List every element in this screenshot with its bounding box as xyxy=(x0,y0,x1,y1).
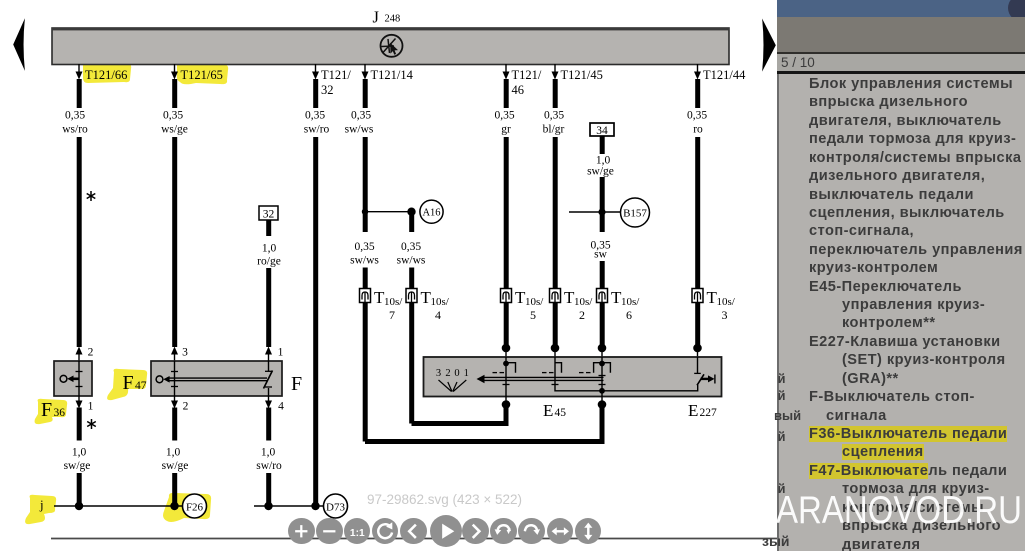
svg-text:7: 7 xyxy=(389,308,395,322)
wire E lower run xyxy=(363,268,368,290)
label E227 xyxy=(688,401,717,420)
wire E2 value 0,35 sw/ws xyxy=(397,241,426,267)
svg-text:0,35: 0,35 xyxy=(351,110,371,122)
wire E mid value 0,35 sw/ws xyxy=(350,241,379,267)
stray text fragment row3 xyxy=(774,408,801,423)
sidebar black line xyxy=(777,71,1025,73)
svg-text:sw/ge: sw/ge xyxy=(587,166,614,178)
svg-text:bl/gr: bl/gr xyxy=(543,124,565,136)
pin arrow up F36 pin 2 xyxy=(76,347,94,362)
wire I stub xyxy=(695,79,700,108)
svg-text:0,35: 0,35 xyxy=(163,110,183,122)
wire H mid run xyxy=(600,177,605,232)
svg-text:B157: B157 xyxy=(623,208,647,220)
junction node wire D bottom xyxy=(311,502,319,510)
highlight F36 label xyxy=(35,399,68,424)
stray text fragment row2 xyxy=(778,388,786,403)
wire F value 0,35 gr xyxy=(494,110,514,136)
asterisk below F36 xyxy=(87,419,96,429)
wire A lower stub xyxy=(77,408,82,441)
svg-text:1:1: 1:1 xyxy=(350,528,365,539)
highlight T121/66 xyxy=(83,63,131,83)
svg-text:T121/14: T121/14 xyxy=(371,68,414,82)
svg-text:32: 32 xyxy=(263,209,275,221)
wire A value 0,35 ws/ro xyxy=(62,110,88,136)
connector arrow T121/45 xyxy=(552,64,603,82)
switch E45 contact 1 xyxy=(493,357,516,397)
svg-text:4: 4 xyxy=(435,308,441,322)
wire C lower stub xyxy=(266,408,271,441)
svg-text:36: 36 xyxy=(54,407,66,419)
junction crossbar B157 xyxy=(569,208,620,215)
toolbar button zoom-in xyxy=(288,518,315,545)
mechanical link double line with left arrow xyxy=(477,375,604,383)
label E45 xyxy=(543,401,566,420)
toolbar button flip-h xyxy=(547,518,574,545)
svg-text:2: 2 xyxy=(88,347,94,359)
node circle F26 xyxy=(183,494,207,518)
wire B lower stub xyxy=(172,408,177,441)
highlight T121/65 xyxy=(177,63,228,84)
svg-text:1,0: 1,0 xyxy=(262,243,277,255)
svg-text:sw/ws: sw/ws xyxy=(350,255,379,267)
svg-text:2: 2 xyxy=(183,401,189,413)
svg-text:J: J xyxy=(373,8,380,27)
wire H stub below box 34 xyxy=(600,136,605,154)
svg-text:10s/: 10s/ xyxy=(574,296,593,308)
inner U route wire to E45 pin xyxy=(412,405,507,424)
svg-text:32: 32 xyxy=(321,83,334,97)
toolbar button rotate-left xyxy=(490,518,517,545)
svg-text:T121/65: T121/65 xyxy=(181,68,223,82)
sidebar pager band xyxy=(777,54,1025,72)
svg-text:3: 3 xyxy=(722,308,728,322)
svg-text:F26: F26 xyxy=(186,502,204,514)
svg-text:T121/44: T121/44 xyxy=(703,68,746,82)
sidebar panel xyxy=(777,0,1025,551)
svg-text:10s/: 10s/ xyxy=(525,296,544,308)
connector arrow T121/65 xyxy=(171,64,223,82)
svg-text:gr: gr xyxy=(501,124,511,136)
svg-text:5: 5 xyxy=(530,308,536,322)
bus bar J248 xyxy=(52,28,730,65)
sidebar blue header strip xyxy=(777,0,1025,17)
svg-text:3: 3 xyxy=(436,368,441,379)
connector symbol T10s/7 xyxy=(360,288,404,322)
wire G stub xyxy=(553,79,558,108)
label J 248 xyxy=(373,8,401,27)
stray text fragment row5 xyxy=(778,481,786,496)
wire H run to E45 xyxy=(600,303,605,346)
svg-text:ro: ro xyxy=(693,124,703,136)
wire E mid stub xyxy=(363,214,368,232)
svg-text:0,35: 0,35 xyxy=(401,241,421,253)
svg-text:4: 4 xyxy=(278,401,284,413)
connector symbol T10s/5 xyxy=(501,288,545,322)
highlight F47 label xyxy=(107,369,147,400)
junction node E2 xyxy=(407,208,415,216)
svg-text:1: 1 xyxy=(464,368,469,379)
svg-text:F: F xyxy=(291,373,302,395)
wire G run to E45 xyxy=(553,303,558,346)
pin arrow down F47 pin 2 xyxy=(171,396,189,413)
svg-text:sw: sw xyxy=(594,249,607,261)
outer U route wire to E45 pin xyxy=(365,405,602,442)
svg-text:10s/: 10s/ xyxy=(717,296,736,308)
label F47 xyxy=(123,372,147,394)
svg-text:0,35: 0,35 xyxy=(687,110,707,122)
wire C value 1,0 ro/ge xyxy=(257,243,281,268)
connector box 34 xyxy=(590,123,614,137)
toolbar button flip-v xyxy=(575,518,602,545)
asterisk mid wire A xyxy=(87,191,96,201)
svg-text:1,0: 1,0 xyxy=(166,447,181,459)
svg-text:T121/: T121/ xyxy=(512,68,542,82)
connector symbol T10s/6 xyxy=(597,288,641,322)
branch wire to A16 xyxy=(365,211,409,213)
svg-text:227: 227 xyxy=(700,407,718,419)
pin arrow up F pin 1 xyxy=(265,347,284,362)
bottom wire right segment xyxy=(254,505,324,507)
svg-text:T121/: T121/ xyxy=(321,68,351,82)
svg-text:10s/: 10s/ xyxy=(621,296,640,308)
svg-text:0: 0 xyxy=(454,368,459,379)
connector arrow T121/32 xyxy=(312,64,351,97)
svg-text:sw/ge: sw/ge xyxy=(162,460,189,472)
svg-text:46: 46 xyxy=(512,83,525,97)
svg-text:0,35: 0,35 xyxy=(65,110,85,122)
wire F run to E45 xyxy=(504,303,509,346)
wire I value 0,35 ro xyxy=(687,110,707,136)
frame bottom line xyxy=(51,538,777,540)
svg-text:10s/: 10s/ xyxy=(384,296,403,308)
svg-text:47: 47 xyxy=(135,380,147,392)
toolbar button refresh xyxy=(372,518,399,545)
sidebar legend text xyxy=(777,75,1025,552)
wire A main run xyxy=(77,137,82,347)
toolbar button next xyxy=(462,518,489,545)
pin node above E45 col F xyxy=(502,344,511,357)
wire I run to E45 xyxy=(695,303,700,346)
svg-text:2: 2 xyxy=(579,308,585,322)
pin node above E45 col I xyxy=(693,344,702,357)
svg-text:1,0: 1,0 xyxy=(261,447,276,459)
svg-text:0,35: 0,35 xyxy=(544,110,564,122)
wire G value 0,35 bl/gr xyxy=(543,110,565,136)
wire F stub xyxy=(504,79,509,108)
svg-text:T121/45: T121/45 xyxy=(561,68,603,82)
wire E2 lower run xyxy=(409,268,414,290)
pin arrow down F36 pin 1 xyxy=(76,396,94,413)
svg-text:97-29862.svg (423 × 522): 97-29862.svg (423 × 522) xyxy=(367,492,522,507)
svg-text:2: 2 xyxy=(445,368,450,379)
stray text fragment row4 xyxy=(778,429,786,444)
label F36 xyxy=(41,399,65,421)
node circle D73 xyxy=(324,494,348,518)
bus circle symbol with cursor xyxy=(381,35,403,57)
wire G main run xyxy=(553,137,558,289)
svg-text:T121/66: T121/66 xyxy=(85,68,127,82)
wire E upper run xyxy=(363,137,368,214)
watermark ARANOVOD.RU xyxy=(776,489,1022,533)
pager text 5 / 10 xyxy=(781,55,815,70)
toolbar button prev xyxy=(400,518,427,545)
wire B main run xyxy=(172,137,177,347)
svg-text:6: 6 xyxy=(626,308,632,322)
switch unit F47 / F box xyxy=(151,361,282,396)
svg-text:45: 45 xyxy=(555,407,567,419)
wire F main run xyxy=(504,137,509,289)
nav arrow next xyxy=(762,19,776,72)
connector box 32 xyxy=(259,206,278,221)
wire E2 run below T10s4 xyxy=(409,303,414,424)
switch E45 contact 3 xyxy=(579,357,610,397)
wire A value 1,0 sw/ge xyxy=(64,447,91,473)
connector arrow T121/46 xyxy=(503,64,542,97)
connector symbol T10s/4 xyxy=(406,288,450,322)
highlight j label xyxy=(25,495,56,524)
wire B stub xyxy=(172,79,177,108)
junction node wire A bottom xyxy=(75,502,83,510)
svg-text:sw/ge: sw/ge xyxy=(64,460,91,472)
svg-text:0,35: 0,35 xyxy=(494,110,514,122)
pin arrow down F pin 4 xyxy=(265,396,284,413)
switch E45 contact 2 xyxy=(542,357,602,391)
node circle A16 xyxy=(420,200,443,223)
junction node wire B bottom xyxy=(170,502,178,510)
pin node above E45 col H xyxy=(598,344,607,357)
wire E value 0,35 sw/ws xyxy=(345,110,374,136)
svg-text:j: j xyxy=(39,497,44,512)
svg-text:E: E xyxy=(543,401,553,420)
wire B value 1,0 sw/ge xyxy=(162,447,189,473)
connector arrow T121/44 xyxy=(694,64,746,82)
svg-text:34: 34 xyxy=(596,125,608,137)
switch E227 contact xyxy=(694,357,715,385)
svg-text:F: F xyxy=(41,399,52,421)
connector arrow T121/14 xyxy=(362,64,414,82)
switch F36 box xyxy=(54,361,92,396)
wire A bottom run xyxy=(77,473,82,506)
wire H lower run xyxy=(600,261,605,289)
sidebar divider line xyxy=(777,52,1025,54)
wire B value 0,35 ws/ge xyxy=(161,110,188,136)
svg-text:10s/: 10s/ xyxy=(431,296,450,308)
svg-text:sw/ro: sw/ro xyxy=(304,124,330,136)
sidebar olive band xyxy=(777,17,1025,52)
wire C value 1,0 sw/ro xyxy=(256,447,282,473)
link line to E227 xyxy=(602,385,698,391)
connector arrow T121/66 xyxy=(76,64,128,82)
pin node above E45 col G xyxy=(551,344,560,357)
junction node on wire E xyxy=(362,209,368,215)
toolbar button zoom-out xyxy=(316,518,343,545)
wire E2 mid stub xyxy=(409,214,414,232)
node circle B157 xyxy=(621,198,650,227)
nav arrow previous xyxy=(13,18,25,71)
svg-text:ro/ge: ro/ge xyxy=(257,256,281,268)
wire H value 0,35 sw xyxy=(590,240,610,261)
sidebar navy corner knob xyxy=(1008,0,1025,22)
svg-text:0,35: 0,35 xyxy=(305,110,325,122)
connector symbol T10s/3 xyxy=(692,288,736,322)
wire I main run xyxy=(695,137,700,289)
svg-text:sw/ws: sw/ws xyxy=(397,255,426,267)
toolbar button play xyxy=(430,515,462,547)
stray text fragment row1 xyxy=(778,371,786,386)
wire D stub xyxy=(313,79,318,108)
pin arrow up F47 pin 3 xyxy=(171,347,188,362)
svg-text:1,0: 1,0 xyxy=(72,447,87,459)
wire E stub xyxy=(363,79,368,108)
wire C bottom run xyxy=(266,473,271,506)
wire E run below T10s7 xyxy=(363,303,368,442)
bottom wire left segment xyxy=(54,505,183,507)
wire C stub below box 32 xyxy=(266,220,271,236)
svg-text:A16: A16 xyxy=(422,208,440,219)
sidebar left border xyxy=(777,74,779,552)
svg-text:D73: D73 xyxy=(326,502,345,514)
stray text fragment bottom xyxy=(762,533,790,549)
connector symbol T10s/2 xyxy=(550,288,594,322)
junction node wire C bottom xyxy=(264,502,272,510)
svg-text:0,35: 0,35 xyxy=(354,241,374,253)
svg-text:E: E xyxy=(688,401,698,420)
svg-text:F: F xyxy=(123,372,134,394)
toolbar button one-to-one xyxy=(344,518,371,545)
svg-text:sw/ws: sw/ws xyxy=(345,124,374,136)
svg-text:3: 3 xyxy=(182,347,188,359)
svg-text:1: 1 xyxy=(88,401,94,413)
svg-text:ws/ro: ws/ro xyxy=(62,124,88,136)
wire A stub xyxy=(77,79,82,108)
svg-text:ws/ge: ws/ge xyxy=(161,124,188,136)
wire D long run to bottom xyxy=(313,137,318,506)
pin node below E45 right xyxy=(598,397,607,409)
svg-text:248: 248 xyxy=(385,14,401,25)
svg-text:sw/ro: sw/ro xyxy=(256,460,282,472)
wire H value 1,0 sw/ge xyxy=(587,155,614,178)
wire B bottom run xyxy=(172,473,177,506)
pin node below E45 left xyxy=(502,397,511,409)
wire C main run xyxy=(266,268,271,347)
selector positions 3 2 0 1 xyxy=(436,368,469,392)
switch module E45/E227 box xyxy=(424,357,722,397)
wire D value 0,35 sw/ro xyxy=(304,110,330,136)
svg-text:1: 1 xyxy=(278,347,284,359)
highlight F26 circle xyxy=(163,493,211,522)
toolbar button rotate-right xyxy=(518,518,545,545)
